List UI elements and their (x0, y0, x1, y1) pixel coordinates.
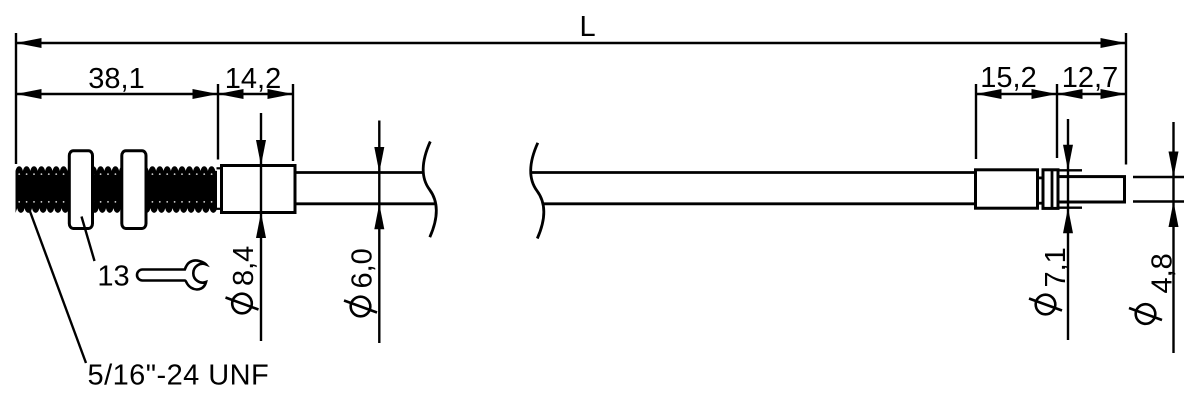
leader thread spec (28, 206, 86, 363)
extension line sleeve end (292, 84, 294, 161)
wrench icon (137, 260, 206, 289)
extension line connector start (975, 84, 977, 159)
dimension L (16, 11, 1126, 48)
extension line left (thread start) (15, 33, 17, 164)
svg-text:L: L (580, 11, 596, 43)
svg-text:15,2: 15,2 (980, 62, 1036, 94)
svg-text:4,8: 4,8 (1147, 253, 1179, 293)
shank stubs (217, 167, 221, 169)
dimension diameter 7,1 (1029, 119, 1082, 340)
leader wrench size 13 (82, 217, 95, 262)
thread (5/16"-24 UNF threaded barrel) (16, 166, 218, 213)
cable left segment (295, 173, 435, 204)
sleeve ferrule body (222, 166, 296, 213)
cable right segment (532, 173, 976, 204)
svg-text:6,0: 6,0 (347, 248, 379, 288)
dimension 14,2 (218, 63, 293, 99)
dimension diameter 4,8 (1129, 122, 1184, 353)
sensor tip (1058, 177, 1125, 202)
dimension diameter 6,0 (344, 121, 384, 344)
hex nut 1 (69, 151, 92, 229)
svg-text:7,1: 7,1 (1040, 247, 1072, 287)
connector ring (1043, 170, 1058, 209)
extension line right (tip end) (1125, 33, 1127, 165)
svg-text:38,1: 38,1 (88, 63, 144, 95)
thread root dots (18, 173, 212, 203)
svg-text:14,2: 14,2 (225, 63, 281, 95)
dimension 15,2 (976, 62, 1057, 99)
dimension diameter 8,4 (226, 113, 267, 341)
hex nut 2 (122, 151, 146, 229)
svg-text:5/16"-24 UNF: 5/16"-24 UNF (88, 360, 270, 392)
break symbol 1 (423, 142, 436, 238)
break symbol 2 (531, 143, 544, 239)
svg-text:8,4: 8,4 (228, 246, 260, 286)
extension line thread end (217, 84, 219, 160)
connector body (976, 170, 1038, 208)
connector neck (1038, 178, 1044, 203)
extension line ring end (1056, 84, 1058, 158)
dimension 12,7 (1057, 62, 1126, 99)
svg-text:12,7: 12,7 (1062, 62, 1118, 94)
dimension 38,1 (16, 63, 218, 99)
svg-text:13: 13 (97, 261, 129, 293)
